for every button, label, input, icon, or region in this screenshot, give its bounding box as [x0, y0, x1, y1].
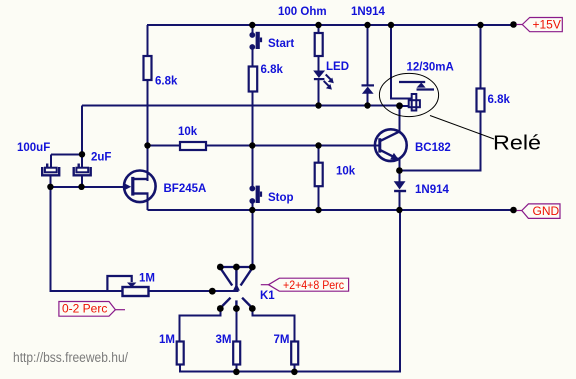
node diode1 bottom — [364, 102, 370, 108]
svg-text:10k: 10k — [336, 166, 356, 178]
svg-text:6.8k: 6.8k — [261, 64, 284, 76]
wire K1 feed x=252.5 — [252, 210, 254, 267]
svg-text:+2+4+8 Perc: +2+4+8 Perc — [283, 278, 344, 292]
wire K1 right elbow to 7M — [253, 309, 295, 343]
rotary switch K1 — [209, 264, 256, 312]
wire x=82 corner down to 2uF node — [81, 106, 83, 169]
relay contact — [399, 82, 434, 90]
svg-text:+15V: +15V — [533, 18, 561, 32]
svg-text:1N914: 1N914 — [415, 184, 449, 196]
svg-text:2uF: 2uF — [91, 152, 111, 164]
wire start column x=252.5 segments — [252, 25, 254, 33]
relay callout line — [430, 116, 494, 140]
flag 0-2 Perc — [59, 302, 125, 317]
resistor R7 1M bottom — [177, 342, 184, 365]
wire left column x=147.5 top rail to resistor — [147, 25, 149, 57]
svg-text:LED: LED — [326, 61, 349, 73]
node stop bottom — [249, 207, 255, 213]
potentiometer P1 wiper loop — [107, 276, 131, 291]
svg-text:7M: 7M — [274, 334, 290, 346]
svg-text:Relé: Relé — [493, 132, 541, 155]
node start top — [249, 22, 255, 28]
node 6.8k right top — [477, 22, 483, 28]
wire down to 100uF top — [50, 155, 52, 169]
node base row mid — [249, 142, 255, 148]
flag +15V — [517, 18, 563, 32]
wire GND rail y=210 — [148, 209, 515, 211]
wire gate rail y=187 — [51, 186, 128, 188]
node 100ohm top — [315, 22, 321, 28]
resistor R9 7M bottom — [291, 342, 298, 365]
pushbutton Start — [249, 32, 262, 50]
node diode1 top — [364, 22, 370, 28]
transistor Q1 BF245A (JFET) — [124, 171, 156, 203]
wire base row y=145.5 — [148, 145, 181, 147]
wire emitter row y=170.5 — [400, 170, 482, 172]
svg-text:http://bss.freeweb.hu/: http://bss.freeweb.hu/ — [13, 350, 128, 365]
node relay feed top — [388, 22, 394, 28]
resistor R6 10k vertical — [315, 163, 323, 187]
svg-text:6.8k: 6.8k — [488, 94, 511, 106]
wire diode1 column x=367.5 — [367, 25, 369, 85]
wire 100ohm/LED column x=318.5 — [318, 25, 320, 33]
svg-text:K1: K1 — [260, 290, 275, 302]
diode D2 1N914 top (near relay) — [362, 84, 375, 93]
wire pot row right to K1 pole — [148, 290, 239, 292]
capacitor C1 100uF — [42, 164, 59, 176]
wire 7M bottom — [294, 364, 296, 373]
node +15V terminal — [510, 21, 517, 28]
wire K1 right vertical x=400 — [399, 210, 401, 373]
resistor R2 6.8k middle — [249, 67, 258, 92]
node 2uF bottom — [78, 184, 84, 190]
wire 100uF bottom to gate rail — [50, 176, 52, 188]
resistor R4 6.8k right — [477, 89, 485, 112]
wire right 6.8k column x=480.5 — [480, 25, 482, 89]
wire mid rail y=105.5 — [82, 105, 402, 107]
wire K1 middle drop to 3M — [236, 309, 238, 343]
node base row 10k — [315, 142, 321, 148]
wire diode2 column — [399, 171, 401, 182]
svg-text:100uF: 100uF — [17, 142, 50, 154]
wire top +15V rail — [147, 24, 514, 26]
svg-text:1N914: 1N914 — [351, 6, 385, 18]
svg-text:Stop: Stop — [268, 192, 294, 204]
wire relay coil feed from +15V — [391, 25, 412, 99]
potentiometer P1 1M body — [123, 287, 149, 296]
flag +2+4+8 Perc — [261, 278, 349, 292]
node LED bottom — [315, 102, 321, 108]
node 10k bottom — [315, 207, 321, 213]
node 100uF bottom — [47, 184, 53, 190]
wire 1M bottom — [179, 364, 181, 373]
transistor Q2 BC182 (NPN) — [375, 129, 407, 161]
node GND terminal — [510, 207, 517, 214]
diode D3 1N914 bottom (at emitter) — [394, 181, 406, 192]
svg-text:0-2 Perc: 0-2 Perc — [62, 302, 107, 316]
wire bottom row y=371.5 — [179, 371, 400, 373]
resistor R1 6.8k left — [144, 56, 152, 80]
svg-text:1M: 1M — [139, 273, 155, 285]
wire collector x=399.5 — [399, 106, 401, 131]
node drain / 10k left — [144, 142, 150, 148]
wire pot row left — [51, 290, 123, 292]
wire 2uF node left to 100uF — [51, 154, 82, 156]
resistor R5 10k horizontal — [180, 142, 206, 150]
node 2uF top — [79, 151, 85, 157]
relay coil K — [409, 94, 420, 111]
wire 10k vertical column x=318.5 — [318, 146, 320, 164]
svg-text:6.8k: 6.8k — [155, 76, 178, 88]
svg-text:100 Ohm: 100 Ohm — [278, 6, 327, 18]
relay ellipse — [379, 73, 438, 116]
resistor R3 100 Ohm — [315, 33, 323, 56]
flag GND — [517, 204, 561, 219]
wire 2uF bottom to gate rail — [81, 176, 83, 188]
pushbutton Stop — [249, 186, 262, 204]
wire JFET source — [147, 194, 149, 210]
wire emitter x=399.5 — [399, 159, 401, 171]
capacitor C2 2uF — [74, 164, 91, 176]
resistor R8 3M bottom — [233, 342, 240, 365]
node relay coil / collector — [396, 102, 403, 109]
wire coil stub from node — [400, 105, 410, 107]
svg-text:BF245A: BF245A — [164, 183, 207, 195]
potentiometer P1 wiper arrow — [127, 283, 136, 288]
node diode2 bottom — [396, 207, 402, 213]
node emitter — [396, 167, 403, 174]
node 3M bottom — [233, 369, 240, 376]
wire left column resistor to JFET drain — [147, 79, 149, 180]
svg-text:1M: 1M — [159, 334, 175, 346]
node 7M bottom — [291, 369, 298, 376]
wire K1 left elbow to 1M — [180, 309, 221, 343]
LED D1 — [313, 71, 334, 90]
svg-text:BC182: BC182 — [415, 142, 451, 154]
wire 3M bottom — [236, 364, 238, 373]
wire left drop x=50.5 down to pot row — [50, 187, 52, 292]
svg-text:12/30mA: 12/30mA — [407, 62, 454, 74]
svg-text:Start: Start — [268, 38, 294, 50]
svg-text:GND: GND — [533, 204, 560, 218]
svg-text:10k: 10k — [178, 126, 198, 138]
svg-text:3M: 3M — [216, 334, 232, 346]
